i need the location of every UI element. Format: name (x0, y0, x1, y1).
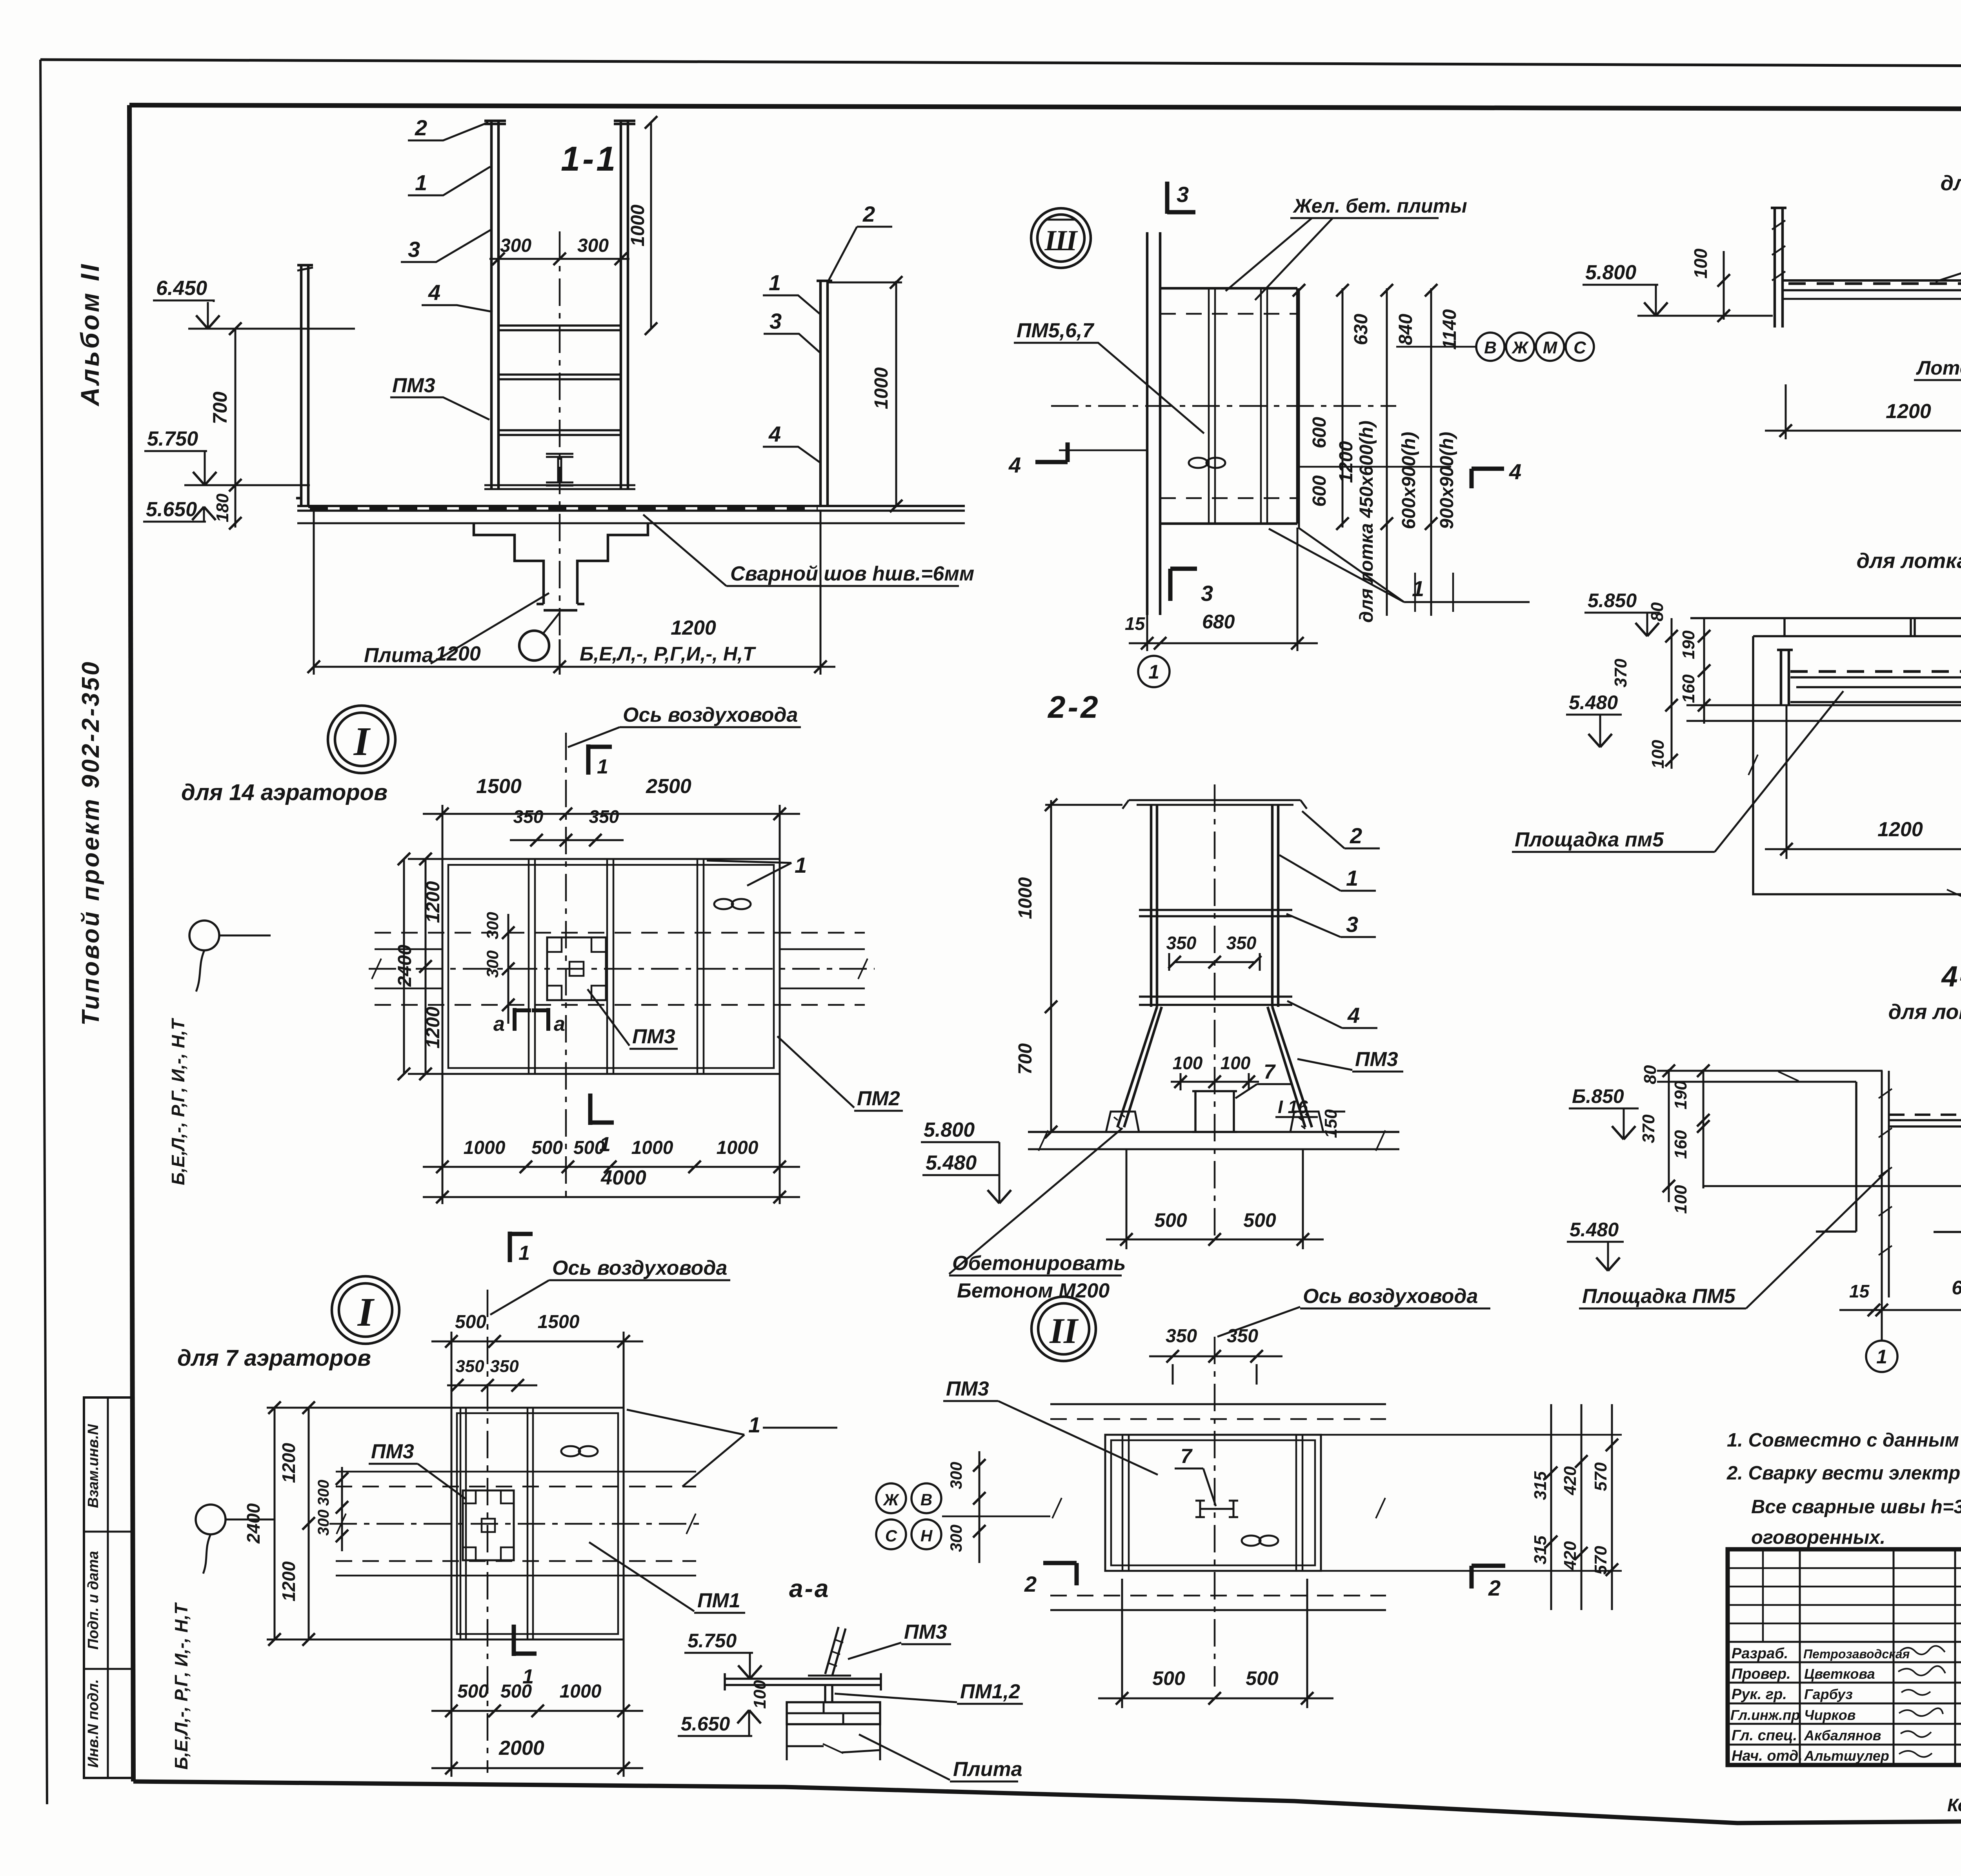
plan box double border (442, 859, 780, 1074)
svg-text:ПМ5,6,7: ПМ5,6,7 (1017, 319, 1094, 342)
svg-text:350: 350 (490, 1357, 519, 1376)
svg-text:Ж: Ж (1512, 338, 1529, 357)
svg-text:315: 315 (1531, 1536, 1550, 1565)
svg-text:315: 315 (1531, 1471, 1550, 1500)
left wall channel (296, 265, 314, 507)
svg-text:160: 160 (1671, 1130, 1690, 1159)
svg-text:180: 180 (213, 493, 232, 522)
svg-text:3: 3 (1346, 912, 1358, 937)
svg-text:420: 420 (1561, 1466, 1580, 1496)
svg-text:2: 2 (862, 202, 875, 226)
svg-text:Ось воздуховода: Ось воздуховода (623, 704, 798, 726)
svg-text:1000: 1000 (560, 1681, 602, 1702)
svg-text:190: 190 (1679, 630, 1698, 659)
svg-text:1-1: 1-1 (561, 139, 618, 178)
svg-text:2: 2 (1024, 1572, 1037, 1596)
svg-text:5.650: 5.650 (146, 498, 197, 521)
svg-text:5.750: 5.750 (688, 1630, 737, 1652)
platform box (1105, 1435, 1321, 1571)
level lines (1686, 705, 1961, 721)
internal beams (1122, 1435, 1302, 1571)
SECE (1567, 960, 1961, 1372)
svg-text:а-а: а-а (789, 1574, 830, 1603)
duct axis (487, 1290, 489, 1773)
svg-text:4: 4 (428, 280, 440, 305)
svg-text:Взам.инв.N: Взам.инв.N (85, 1424, 102, 1508)
svg-text:350: 350 (1227, 1326, 1258, 1346)
svg-text:1200: 1200 (278, 1443, 299, 1483)
svg-text:2: 2 (1488, 1576, 1501, 1600)
svg-text:1500: 1500 (538, 1312, 580, 1332)
center support detail PM3 (547, 937, 606, 1000)
svg-text:2: 2 (1350, 823, 1362, 848)
axis circle 1 (1138, 656, 1170, 687)
svg-text:5.480: 5.480 (1570, 1219, 1619, 1241)
svg-text:1500: 1500 (476, 775, 522, 798)
svg-text:500: 500 (1154, 1209, 1187, 1231)
svg-text:100: 100 (1671, 1185, 1690, 1214)
svg-text:Н: Н (920, 1527, 933, 1545)
svg-text:Б,Е,Л,-, Р,Г, И,-, Н,Т: Б,Е,Л,-, Р,Г, И,-, Н,Т (171, 1602, 191, 1769)
left dim stack (1672, 618, 1704, 769)
dims 1200 840 1140 (1786, 379, 1961, 439)
svg-text:300: 300 (577, 235, 609, 256)
pedestal below floor (474, 523, 648, 610)
dim 300 300 left (979, 1451, 980, 1563)
internal beams (460, 1408, 533, 1639)
svg-text:300: 300 (483, 950, 502, 978)
dims 500 500 bottom (1106, 1149, 1324, 1249)
section mark 1 bottom (514, 1625, 537, 1656)
internal beams (529, 859, 704, 1074)
svg-text:300: 300 (315, 1480, 332, 1506)
bottom dims row (442, 1074, 780, 1204)
platform plate (725, 1673, 881, 1690)
svg-text:370: 370 (1639, 1114, 1658, 1143)
dim 300 300 (341, 1467, 343, 1551)
section mark 1 top (588, 744, 612, 775)
right dim verticals (1299, 288, 1431, 616)
signatures scribbles (1900, 1646, 1945, 1654)
svg-text:ПМ2: ПМ2 (857, 1087, 900, 1110)
svg-text:600: 600 (1309, 475, 1330, 507)
svg-text:ПМ3: ПМ3 (1355, 1048, 1398, 1071)
NOTES (1726, 1420, 1961, 1550)
svg-text:а: а (493, 1013, 505, 1035)
svg-text:Ось воздуховода: Ось воздуховода (1303, 1285, 1478, 1308)
svg-text:для 7 аэраторов: для 7 аэраторов (177, 1345, 371, 1371)
svg-text:15: 15 (1849, 1281, 1870, 1301)
strut PM3 (825, 1627, 846, 1676)
svg-text:Плита: Плита (953, 1758, 1022, 1781)
left dim stack (1669, 1069, 1703, 1202)
left dims 1200 1200 2400 (267, 1408, 451, 1639)
svg-text:5.850: 5.850 (1588, 590, 1637, 611)
svg-text:15: 15 (1125, 613, 1146, 634)
svg-text:Обетонировать: Обетонировать (952, 1252, 1126, 1275)
svg-text:Бетоном М200: Бетоном М200 (957, 1279, 1110, 1302)
chain symbol (1242, 1536, 1261, 1546)
tower centerline (559, 231, 561, 639)
svg-text:370: 370 (1611, 659, 1630, 688)
svg-text:Площадка пм5: Площадка пм5 (1515, 828, 1664, 851)
section mark 1 bottom (590, 1094, 614, 1125)
svg-text:1000: 1000 (464, 1137, 506, 1158)
left wall channel (1771, 208, 1786, 328)
svg-text:1: 1 (1412, 576, 1424, 601)
bottom dims 15 680 (1882, 1232, 1961, 1321)
node marker II (1031, 1297, 1096, 1361)
svg-text:190: 190 (1671, 1081, 1690, 1110)
svg-text:1: 1 (1876, 1346, 1887, 1368)
svg-text:500: 500 (1243, 1209, 1276, 1231)
svg-text:Альтшулер: Альтшулер (1804, 1748, 1889, 1764)
svg-text:Разраб.: Разраб. (1732, 1645, 1788, 1662)
svg-text:I: I (357, 1290, 375, 1335)
svg-text:ПМ3: ПМ3 (904, 1621, 947, 1643)
I-beam under column (546, 454, 573, 486)
svg-text:570: 570 (1591, 1462, 1610, 1491)
platform channel upright (1777, 650, 1793, 706)
svg-text:6.450: 6.450 (156, 277, 207, 300)
dims 100 100 (1171, 1073, 1259, 1090)
svg-text:1: 1 (748, 1412, 760, 1437)
svg-text:Б.850: Б.850 (1572, 1085, 1624, 1107)
LEFTMARGIN (75, 262, 132, 1778)
svg-text:1200: 1200 (1877, 818, 1923, 841)
svg-text:Нач. отд.: Нач. отд. (1732, 1748, 1803, 1764)
svg-text:ПМ1,2: ПМ1,2 (960, 1680, 1020, 1703)
svg-text:1200: 1200 (1886, 400, 1931, 423)
node marker I (14 aerators) (328, 706, 395, 773)
SECD (1512, 504, 1961, 948)
svg-text:350: 350 (513, 806, 544, 827)
left axis circles 2x2 (876, 1483, 906, 1513)
svg-text:Ось воздуховода: Ось воздуховода (552, 1257, 727, 1279)
svg-text:500: 500 (1152, 1667, 1185, 1689)
svg-text:1200: 1200 (671, 617, 716, 639)
svg-text:2. Сварку вести электродами Э: 2. Сварку вести электродами Э42, ГОСТ946… (1726, 1463, 1961, 1484)
svg-text:ПМ3: ПМ3 (371, 1440, 414, 1463)
svg-text:4: 4 (1509, 459, 1521, 484)
svg-text:для 14 аэраторов: для 14 аэраторов (181, 780, 387, 805)
platform plate (1889, 1114, 1961, 1116)
svg-text:7: 7 (1264, 1061, 1276, 1083)
duct axis (1214, 1337, 1216, 1687)
svg-text:Альбом II: Альбом II (75, 262, 104, 407)
ground lines (1028, 1131, 1399, 1133)
svg-text:Подп. и дата: Подп. и дата (85, 1551, 102, 1650)
svg-text:Сварной шов hшв.=6мм: Сварной шов hшв.=6мм (730, 562, 974, 585)
svg-text:1200: 1200 (423, 881, 444, 923)
node marker III (1031, 208, 1091, 268)
floor level line (1703, 1185, 1961, 1187)
dim 1200 1200 bottom (314, 511, 820, 675)
tower base plate (484, 485, 635, 489)
svg-text:600: 600 (1309, 417, 1330, 448)
duct band (336, 1472, 696, 1576)
svg-text:5.800: 5.800 (1585, 261, 1636, 284)
dim 300 300 small (508, 914, 509, 1024)
right wall channel (817, 281, 832, 507)
svg-text:3: 3 (408, 237, 420, 262)
svg-text:80: 80 (1641, 1065, 1660, 1084)
platform plate (1783, 279, 1961, 282)
svg-text:1000: 1000 (1015, 877, 1036, 919)
svg-text:Б,Е,Л,-, Р,Г, И,-, Н,Т: Б,Е,Л,-, Р,Г, И,-, Н,Т (168, 1017, 188, 1185)
svg-text:1: 1 (1346, 866, 1358, 890)
svg-text:1200: 1200 (435, 642, 481, 665)
svg-text:Гл.инж.пр: Гл.инж.пр (1730, 1707, 1800, 1723)
svg-text:2000: 2000 (498, 1737, 544, 1760)
svg-text:300: 300 (947, 1525, 965, 1552)
bottom dims 500 500 (1098, 1579, 1333, 1708)
svg-text:700: 700 (209, 391, 231, 424)
axis circle and letters (519, 631, 549, 661)
svg-text:Гарбуз: Гарбуз (1804, 1686, 1853, 1702)
SECC (1583, 135, 1961, 480)
svg-text:4000: 4000 (600, 1166, 646, 1189)
svg-text:Ш: Ш (1044, 225, 1078, 257)
dim 350 350 (447, 1385, 537, 1387)
svg-text:Акбалянов: Акбалянов (1804, 1727, 1881, 1743)
svg-text:600x900(h): 600x900(h) (1399, 432, 1419, 529)
bottom dims 15 680 (1147, 528, 1297, 651)
svg-text:5.480: 5.480 (1569, 691, 1618, 713)
SEC11 (143, 115, 965, 675)
svg-text:3: 3 (769, 309, 782, 333)
platform hatch strip PM1,2 (310, 507, 818, 510)
svg-text:Ж: Ж (883, 1490, 900, 1509)
svg-text:1000: 1000 (871, 367, 892, 409)
svg-text:ПМ3: ПМ3 (392, 374, 435, 397)
svg-text:для лотка 450x600(h): для лотка 450x600(h) (1356, 420, 1377, 622)
channel upright at wall (1882, 1071, 1889, 1297)
svg-text:100: 100 (1690, 248, 1711, 278)
chain symbol (714, 899, 733, 909)
right dim stack 315 420 570 (1321, 1435, 1622, 1571)
svg-text:II: II (1049, 1311, 1079, 1351)
svg-text:1: 1 (599, 1133, 611, 1156)
column left of tower (484, 121, 506, 489)
svg-text:350: 350 (455, 1357, 484, 1376)
dim 350 350 (1169, 953, 1260, 971)
dim 2000 (431, 1767, 643, 1769)
svg-text:для лотка сечением 450x600: для лотка сечением 450x600(h) (1857, 549, 1961, 573)
dashed internals (1160, 314, 1297, 498)
dim 150 right (1329, 1111, 1345, 1113)
svg-text:2400: 2400 (243, 1503, 264, 1544)
svg-text:2400: 2400 (395, 944, 415, 987)
margin stamp cells (84, 1397, 132, 1778)
svg-text:5.750: 5.750 (147, 428, 198, 450)
svg-text:100: 100 (750, 1680, 769, 1709)
splayed legs (1117, 1007, 1312, 1127)
svg-text:300: 300 (947, 1462, 965, 1489)
svg-text:100: 100 (1648, 740, 1668, 769)
title block outer (1728, 1549, 1961, 1765)
svg-text:1200: 1200 (1336, 441, 1357, 483)
svg-text:4: 4 (1347, 1003, 1360, 1028)
chain symbol (1189, 458, 1208, 468)
svg-text:630: 630 (1351, 314, 1372, 345)
svg-text:3: 3 (1201, 581, 1213, 606)
svg-text:840: 840 (1395, 314, 1416, 345)
svg-text:оговоренных.: оговоренных. (1751, 1527, 1885, 1548)
section mark 3 bottom (1170, 569, 1197, 601)
svg-text:Петрозаводская: Петрозаводская (1803, 1647, 1910, 1661)
svg-text:5.650: 5.650 (681, 1713, 730, 1735)
SEC22 (949, 690, 1490, 1337)
svg-text:Инв.N подл.: Инв.N подл. (85, 1679, 102, 1768)
svg-text:1200: 1200 (278, 1561, 299, 1601)
svg-text:900x900(h): 900x900(h) (1437, 432, 1457, 529)
svg-text:1000: 1000 (628, 204, 648, 246)
svg-text:1: 1 (769, 270, 781, 295)
centerline vertical (1214, 784, 1216, 1239)
concrete foot pads (1106, 1112, 1323, 1132)
top dims 500 1500 (451, 1332, 624, 1408)
svg-text:Копировал: Лаврухина: Копировал: Лаврухина (1947, 1795, 1961, 1815)
rung mid (1139, 910, 1292, 916)
svg-text:4: 4 (768, 422, 781, 446)
svg-text:1: 1 (795, 853, 807, 877)
svg-text:1000: 1000 (717, 1137, 759, 1158)
svg-text:В: В (1484, 338, 1497, 357)
svg-text:1: 1 (415, 170, 427, 195)
svg-text:Провер.: Провер. (1732, 1666, 1791, 1682)
svg-text:5.800: 5.800 (924, 1119, 975, 1141)
svg-text:Гл. спец.: Гл. спец. (1732, 1727, 1797, 1744)
svg-text:2-2: 2-2 (1047, 690, 1101, 724)
svg-text:2: 2 (415, 115, 427, 140)
svg-text:Цветкова: Цветкова (1804, 1666, 1875, 1682)
svg-text:160: 160 (1679, 674, 1698, 703)
axis circle 1 (1881, 1321, 1883, 1341)
trough box (1934, 1189, 1961, 1232)
svg-text:420: 420 (1561, 1541, 1580, 1570)
dim 4000 (423, 1196, 800, 1198)
svg-text:Рук. гр.: Рук. гр. (1732, 1686, 1787, 1703)
dim 180 vertical (235, 485, 236, 528)
floor slab lines (297, 505, 965, 507)
svg-text:ПМ3: ПМ3 (632, 1025, 675, 1048)
svg-text:100: 100 (1173, 1053, 1203, 1073)
plan wall lines (1147, 232, 1160, 615)
left dim 1000 700 (1045, 800, 1122, 1132)
svg-text:350: 350 (1166, 1326, 1197, 1346)
section mark 1 top (510, 1232, 533, 1262)
outer trim border (40, 60, 1961, 67)
cut trace lines (1059, 450, 1451, 467)
brick pedestal (787, 1702, 880, 1724)
dim 1000 right wall (828, 281, 902, 507)
svg-text:а: а (554, 1013, 565, 1035)
svg-text:680: 680 (1952, 1277, 1961, 1299)
svg-text:1000: 1000 (631, 1137, 673, 1158)
axis circle left (196, 1505, 226, 1534)
duct band (375, 933, 865, 1005)
svg-text:В: В (920, 1490, 932, 1509)
svg-text:300: 300 (483, 912, 502, 939)
dim 1000 tower (650, 122, 652, 329)
bottom dims 500 500 1000 (431, 1639, 643, 1777)
weld stub below (825, 1685, 832, 1702)
center pier with I16 (1192, 1091, 1237, 1132)
section mark 3 top (1167, 182, 1195, 214)
svg-text:350: 350 (1226, 933, 1257, 953)
svg-text:4-4: 4-4 (1941, 960, 1961, 993)
top dims 1500 2500 (442, 805, 780, 859)
svg-text:С: С (885, 1527, 897, 1545)
top flange (1122, 800, 1307, 809)
svg-text:I 16: I 16 (1278, 1097, 1308, 1117)
svg-text:570: 570 (1591, 1546, 1610, 1575)
svg-text:1: 1 (522, 1665, 534, 1688)
svg-text:С: С (1574, 338, 1586, 357)
dim 700 vertical (235, 329, 236, 485)
svg-text:Все сварные швы h=3мм, кроме о: Все сварные швы h=3мм, кроме особо- (1751, 1496, 1961, 1518)
SECB (643, 182, 1594, 687)
svg-text:680: 680 (1202, 611, 1235, 633)
svg-text:Жел. бет. плиты: Жел. бет. плиты (1292, 195, 1467, 217)
base break lines (787, 1724, 880, 1760)
axis circle left (189, 921, 219, 950)
wall face (1816, 1082, 1856, 1232)
svg-text:100: 100 (1221, 1053, 1251, 1073)
svg-text:Лоток: Лоток (1916, 357, 1961, 379)
column right of tower (614, 121, 635, 489)
svg-text:500: 500 (457, 1681, 489, 1702)
svg-text:Чирков: Чирков (1804, 1707, 1855, 1723)
svg-text:1: 1 (1148, 661, 1159, 683)
duct band (1050, 1404, 1386, 1610)
svg-text:1. Совместно с данным сн.л.: 1. Совместно с данным сн.л. КЖ-59. (1727, 1430, 1961, 1451)
concrete outline (1753, 636, 1961, 894)
svg-text:80: 80 (1648, 602, 1667, 621)
svg-text:700: 700 (1015, 1043, 1036, 1075)
chain symbol (561, 1446, 580, 1456)
svg-text:150: 150 (1321, 1109, 1341, 1138)
plan box (451, 1408, 624, 1639)
svg-text:для лотков сечением 600x900(: для лотков сечением 600x900(h), 900x900(… (1941, 171, 1961, 195)
dim 100 (1723, 251, 1725, 320)
svg-text:I: I (353, 719, 371, 764)
dim 350 350 (510, 839, 624, 841)
thin rows (1728, 1568, 1961, 1623)
rung lower (1139, 997, 1292, 1005)
dims 1200 630 (1786, 706, 1961, 859)
SECI (171, 1232, 837, 1777)
left dims 1200 1200 2400 (404, 859, 442, 1074)
inner drawing frame (129, 105, 1961, 110)
node marker I (7 aerators) (332, 1276, 399, 1344)
svg-text:Типовой проект 902-2-350: Типовой проект 902-2-350 (77, 660, 104, 1026)
svg-text:1: 1 (597, 755, 608, 778)
svg-text:3: 3 (1177, 182, 1189, 207)
platform plate (1790, 670, 1961, 673)
SECG (876, 1297, 1622, 1708)
duct axis centerline (565, 733, 567, 1199)
svg-text:300: 300 (315, 1510, 332, 1536)
TITLEBLOCK (1728, 1549, 1961, 1815)
top slabs (1690, 618, 1961, 636)
SECH (678, 1574, 1023, 1781)
dim 350 350 top (1149, 1356, 1282, 1385)
tower rungs (498, 326, 621, 330)
svg-text:Плита: Плита (364, 644, 433, 667)
svg-text:350: 350 (1166, 933, 1197, 953)
